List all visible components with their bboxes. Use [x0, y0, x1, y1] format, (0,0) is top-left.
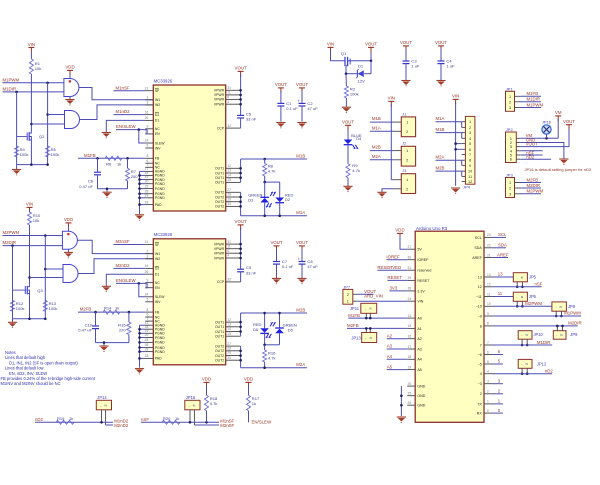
svg-text:JP11: JP11 [350, 306, 360, 311]
svg-text:EN/SLEW: EN/SLEW [116, 124, 136, 129]
svg-text:IOREF: IOREF [417, 258, 429, 262]
svg-text:100k: 100k [16, 306, 26, 311]
svg-text:20: 20 [145, 333, 149, 337]
svg-text:M1DIR: M1DIR [537, 340, 551, 345]
svg-text:VOUT: VOUT [296, 82, 308, 87]
svg-text:24: 24 [145, 293, 149, 297]
svg-text:9: 9 [469, 164, 471, 168]
svg-text:~11: ~11 [476, 295, 482, 299]
svg-text:4: 4 [227, 254, 229, 258]
svg-text:JP16 is default setting jumper: JP16 is default setting jumper for nD2 [525, 167, 592, 172]
svg-text:28: 28 [408, 287, 412, 291]
svg-text:VIN: VIN [28, 42, 35, 47]
svg-text:VIN: VIN [417, 300, 423, 304]
svg-text:IN: IN [104, 404, 107, 407]
svg-text:OUT2: OUT2 [215, 359, 224, 363]
svg-text:Arduino Uno R3: Arduino Uno R3 [416, 226, 448, 231]
svg-text:0.1 uF: 0.1 uF [282, 264, 294, 269]
svg-text:M2B: M2B [372, 145, 381, 150]
svg-text:J2: J2 [402, 142, 406, 146]
svg-text:VOUT: VOUT [235, 66, 247, 71]
svg-text:VPWR: VPWR [214, 103, 225, 107]
svg-text:6: 6 [227, 249, 229, 253]
svg-text:0.47 uF: 0.47 uF [78, 328, 92, 333]
svg-text:2: 2 [469, 126, 471, 130]
svg-text:11: 11 [498, 291, 503, 296]
svg-text:32: 32 [227, 278, 231, 282]
svg-text:PGND: PGND [155, 196, 165, 200]
svg-text:M2nSF: M2nSF [220, 423, 234, 428]
svg-text:IN1: IN1 [155, 252, 160, 256]
svg-text:IN: IN [193, 404, 196, 407]
svg-text:4.7k: 4.7k [268, 169, 277, 174]
svg-text:EN/SLEW: EN/SLEW [252, 420, 272, 425]
svg-text:VPWR: VPWR [214, 242, 225, 246]
svg-text:MC33926: MC33926 [154, 78, 173, 83]
svg-text:VOUT: VOUT [435, 40, 447, 45]
svg-text:0: 0 [487, 409, 489, 413]
svg-text:23: 23 [487, 233, 491, 237]
svg-text:VOUT: VOUT [342, 120, 354, 125]
svg-text:5V: 5V [417, 248, 422, 252]
svg-text:IN: IN [521, 277, 524, 280]
svg-text:A2: A2 [417, 337, 421, 341]
svg-text:SDA: SDA [498, 243, 507, 248]
svg-text:D2: D2 [285, 197, 291, 202]
svg-text:R19: R19 [57, 416, 65, 421]
svg-text:JP9: JP9 [570, 332, 578, 337]
svg-text:VOUT: VOUT [270, 240, 282, 245]
svg-text:R14: R14 [104, 306, 112, 311]
svg-text:A3: A3 [387, 344, 393, 349]
svg-text:A2: A2 [387, 333, 393, 338]
svg-text:D5: D5 [288, 328, 294, 333]
svg-text:29: 29 [227, 351, 231, 355]
svg-text:1: 1 [406, 177, 408, 182]
svg-text:6: 6 [510, 158, 512, 162]
svg-text:Q3: Q3 [37, 288, 43, 293]
svg-text:nD2: nD2 [35, 417, 44, 422]
svg-text:OUT2: OUT2 [215, 195, 224, 199]
svg-text:CCP: CCP [217, 280, 225, 284]
svg-text:A4: A4 [417, 358, 421, 362]
svg-text:26: 26 [145, 116, 149, 120]
svg-text:ARD_VIN: ARD_VIN [364, 294, 383, 299]
svg-text:JP14: JP14 [97, 395, 107, 400]
svg-text:IN2: IN2 [155, 103, 160, 107]
svg-text:SF: SF [155, 243, 159, 247]
svg-text:JP4: JP4 [463, 185, 471, 190]
svg-text:M2PWM: M2PWM [527, 189, 544, 194]
svg-text:M2FB: M2FB [80, 307, 92, 312]
svg-text:15: 15 [227, 178, 231, 182]
svg-text:←: ← [521, 334, 524, 337]
svg-text:OUT1: OUT1 [215, 320, 224, 324]
svg-text:1: 1 [347, 300, 349, 304]
svg-text:11: 11 [227, 91, 231, 95]
svg-text:100k: 100k [20, 152, 30, 157]
svg-text:14: 14 [227, 327, 231, 331]
svg-text:8: 8 [146, 308, 148, 312]
svg-text:4: 4 [487, 370, 489, 374]
svg-text:30: 30 [408, 256, 412, 260]
svg-text:3: 3 [146, 101, 148, 105]
svg-text:reserved: reserved [417, 269, 431, 273]
svg-text:27: 27 [227, 188, 231, 192]
svg-text:14: 14 [227, 173, 231, 177]
svg-text:PAD: PAD [155, 357, 162, 361]
svg-text:7: 7 [469, 153, 471, 157]
svg-text:12: 12 [468, 180, 472, 184]
svg-text:M1PWM: M1PWM [527, 102, 544, 107]
svg-text:VIN: VIN [327, 42, 334, 47]
svg-text:GND: GND [417, 394, 425, 398]
svg-text:JP12: JP12 [537, 362, 547, 367]
svg-text:11: 11 [487, 292, 491, 296]
svg-text:SLEW: SLEW [155, 295, 165, 299]
svg-text:RESERVED: RESERVED [377, 265, 401, 270]
svg-text:200: 200 [131, 174, 139, 179]
svg-text:33 nF: 33 nF [246, 117, 257, 122]
svg-text:10k: 10k [35, 66, 43, 71]
svg-text:27: 27 [227, 342, 231, 346]
svg-text:R6: R6 [106, 162, 112, 167]
svg-text:~9: ~9 [478, 314, 482, 318]
svg-text:25: 25 [408, 392, 412, 396]
svg-text:D2: D2 [155, 113, 159, 117]
svg-text:M2B: M2B [296, 307, 305, 312]
svg-text:22: 22 [487, 244, 491, 248]
svg-text:15: 15 [408, 324, 412, 328]
svg-text:47 uF: 47 uF [307, 264, 318, 269]
svg-text:4: 4 [480, 372, 482, 376]
svg-text:A4: A4 [387, 354, 393, 359]
svg-text:VOUT: VOUT [400, 40, 412, 45]
svg-text:VOUT: VOUT [296, 240, 308, 245]
svg-text:24: 24 [145, 139, 149, 143]
svg-text:IN1: IN1 [155, 98, 160, 102]
svg-text:8: 8 [146, 154, 148, 158]
svg-text:M1A: M1A [296, 210, 305, 215]
svg-text:PGND: PGND [155, 187, 165, 191]
svg-text:4.7k: 4.7k [352, 168, 361, 173]
svg-text:16: 16 [145, 110, 149, 114]
svg-text:3: 3 [509, 192, 511, 196]
svg-text:OUT1: OUT1 [215, 171, 224, 175]
svg-text:13: 13 [227, 323, 231, 327]
svg-text:M2nD2: M2nD2 [116, 263, 131, 268]
svg-text:16: 16 [408, 335, 412, 339]
svg-text:VPWR: VPWR [214, 98, 225, 102]
svg-text:100k: 100k [350, 91, 360, 96]
svg-text:2: 2 [509, 187, 511, 191]
svg-text:~6: ~6 [478, 353, 482, 357]
svg-text:9: 9 [146, 125, 148, 129]
svg-text:OUT2: OUT2 [215, 344, 224, 348]
svg-text:31: 31 [227, 86, 231, 90]
svg-text:2: 2 [347, 293, 349, 297]
svg-text:2: 2 [480, 392, 482, 396]
svg-text:AREF: AREF [497, 252, 509, 257]
svg-text:D3: D3 [248, 197, 254, 202]
svg-text:0.47 uF: 0.47 uF [79, 184, 93, 189]
svg-text:A0: A0 [417, 317, 421, 321]
svg-text:M1FB: M1FB [84, 153, 96, 158]
svg-text:21: 21 [487, 253, 491, 257]
svg-text:PGND: PGND [155, 182, 165, 186]
svg-text:15: 15 [227, 332, 231, 336]
svg-text:M2FB: M2FB [347, 323, 359, 328]
svg-text:M1DIR: M1DIR [3, 87, 17, 92]
svg-text:M2DIR: M2DIR [568, 321, 582, 326]
svg-text:4.7k: 4.7k [210, 401, 219, 406]
svg-text:OUT1: OUT1 [215, 167, 224, 171]
svg-text:1: 1 [509, 181, 511, 185]
svg-text:RESET: RESET [388, 275, 403, 280]
svg-text:D1: D1 [155, 119, 159, 123]
svg-text:2: 2 [487, 390, 489, 394]
svg-text:11: 11 [227, 244, 231, 248]
svg-text:VDD: VDD [64, 217, 73, 222]
svg-text:FB: FB [155, 157, 160, 161]
svg-text:A3: A3 [417, 347, 421, 351]
svg-text:M1DIR: M1DIR [527, 97, 541, 102]
svg-text:24: 24 [408, 297, 412, 301]
svg-text:VOUT: VOUT [235, 219, 247, 224]
svg-text:IN: IN [526, 363, 529, 366]
svg-text:←: ← [516, 296, 519, 299]
svg-text:3: 3 [146, 254, 148, 258]
svg-text:M1PWM: M1PWM [3, 77, 20, 82]
svg-text:VIN: VIN [388, 96, 395, 101]
svg-text:←: ← [555, 334, 558, 337]
svg-text:M2DIR: M2DIR [3, 240, 17, 245]
svg-text:PAD: PAD [155, 203, 162, 207]
svg-text:OUT2: OUT2 [215, 349, 224, 353]
svg-text:M2nSF: M2nSF [116, 239, 130, 244]
svg-text:3: 3 [487, 380, 489, 384]
svg-text:nSF: nSF [141, 417, 149, 422]
svg-text:←: ← [555, 306, 558, 309]
svg-text:12: 12 [478, 285, 482, 289]
svg-text:M1A: M1A [372, 125, 381, 130]
svg-text:VDD: VDD [202, 377, 211, 382]
svg-text:9: 9 [146, 278, 148, 282]
svg-text:J1: J1 [402, 112, 406, 116]
svg-text:30: 30 [227, 356, 231, 360]
svg-text:33: 33 [145, 200, 149, 204]
svg-text:PGND: PGND [155, 350, 165, 354]
svg-text:JP1: JP1 [506, 86, 514, 91]
svg-text:3.3V: 3.3V [417, 289, 425, 293]
svg-text:M2FB: M2FB [527, 177, 539, 182]
svg-text:~3: ~3 [478, 382, 482, 386]
svg-text:5: 5 [146, 298, 148, 302]
svg-text:D2: D2 [155, 267, 159, 271]
svg-text:M1A: M1A [436, 116, 445, 121]
svg-text:SCL: SCL [475, 236, 482, 240]
svg-text:32: 32 [227, 124, 231, 128]
svg-text:1: 1 [509, 95, 511, 99]
svg-text:PGND: PGND [155, 341, 165, 345]
svg-text:JP6: JP6 [529, 294, 537, 299]
svg-text:9: 9 [487, 312, 489, 316]
svg-text:INV: INV [155, 146, 161, 150]
svg-text:IN: IN [560, 306, 563, 309]
svg-text:JP10: JP10 [534, 332, 544, 337]
svg-text:8: 8 [480, 324, 482, 328]
svg-text:←: ← [100, 404, 103, 407]
svg-text:VPWR: VPWR [214, 93, 225, 97]
svg-text:7: 7 [480, 343, 482, 347]
svg-text:21: 21 [145, 240, 149, 244]
svg-text:25: 25 [145, 338, 149, 342]
svg-text:JP2: JP2 [506, 127, 514, 132]
svg-text:M1B: M1B [296, 153, 305, 158]
svg-text:M2nD2: M2nD2 [114, 423, 129, 428]
svg-text:19: 19 [408, 365, 412, 369]
svg-text:A1: A1 [417, 327, 421, 331]
svg-text:31: 31 [408, 266, 412, 270]
svg-text:IN: IN [369, 308, 372, 311]
svg-text:3V3: 3V3 [390, 286, 398, 291]
svg-text:13: 13 [487, 273, 491, 277]
svg-text:28: 28 [227, 193, 231, 197]
svg-text:M2A: M2A [296, 362, 305, 367]
svg-text:VPWR: VPWR [214, 89, 225, 93]
svg-text:VM: VM [555, 110, 562, 115]
svg-text:←: ← [364, 308, 367, 311]
svg-text:4: 4 [227, 100, 229, 104]
svg-text:11: 11 [468, 175, 472, 179]
svg-text:1: 1 [469, 120, 471, 124]
svg-text:M1FB: M1FB [527, 91, 539, 96]
svg-text:JP7: JP7 [343, 284, 351, 289]
svg-text:6: 6 [469, 148, 471, 152]
svg-text:2: 2 [406, 186, 408, 191]
svg-text:←: ← [521, 363, 524, 366]
svg-text:SCL: SCL [498, 232, 507, 237]
svg-text:47 uF: 47 uF [307, 106, 318, 111]
svg-text:VOUT: VOUT [563, 119, 575, 124]
svg-text:VDD: VDD [395, 228, 404, 233]
svg-text:8: 8 [469, 159, 471, 163]
svg-text:nSF: nSF [535, 282, 543, 287]
svg-text:8: 8 [487, 322, 489, 326]
svg-text:INV: INV [155, 300, 161, 304]
svg-text:OUT2: OUT2 [215, 354, 224, 358]
svg-text:VPWR: VPWR [214, 256, 225, 260]
svg-text:25: 25 [145, 184, 149, 188]
svg-text:M2PWM: M2PWM [525, 301, 542, 306]
svg-text:2: 2 [509, 100, 511, 104]
svg-text:R20: R20 [163, 416, 171, 421]
svg-text:VOUT: VOUT [275, 82, 287, 87]
svg-text:5: 5 [487, 360, 489, 364]
svg-text:CCP: CCP [217, 126, 225, 130]
svg-text:5: 5 [469, 142, 471, 146]
svg-text:100k: 100k [49, 306, 59, 311]
svg-text:D6: D6 [253, 327, 259, 332]
svg-text:2: 2 [146, 96, 148, 100]
svg-text:29: 29 [227, 197, 231, 201]
svg-text:100k: 100k [51, 152, 61, 157]
svg-text:OUT1: OUT1 [215, 330, 224, 334]
svg-text:12: 12 [227, 318, 231, 322]
svg-text:29: 29 [408, 276, 412, 280]
svg-text:IN2: IN2 [155, 257, 160, 261]
svg-text:←: ← [365, 337, 368, 340]
svg-text:1 uF: 1 uF [446, 63, 455, 68]
svg-text:13: 13 [478, 275, 482, 279]
svg-text:VPWR: VPWR [214, 247, 225, 251]
svg-text:JP15: JP15 [186, 395, 196, 400]
svg-text:IN: IN [526, 334, 529, 337]
svg-text:13: 13 [227, 169, 231, 173]
svg-text:FB: FB [155, 310, 160, 314]
svg-text:JP5: JP5 [529, 275, 537, 280]
svg-text:26: 26 [408, 401, 412, 405]
svg-text:MC33926: MC33926 [154, 232, 173, 237]
svg-text:OUT1: OUT1 [215, 335, 224, 339]
svg-text:JP16: JP16 [542, 120, 552, 125]
svg-text:EN: EN [155, 132, 160, 136]
svg-text:M1FB: M1FB [348, 313, 360, 318]
svg-text:3: 3 [469, 131, 471, 135]
svg-text:PGND: PGND [155, 336, 165, 340]
svg-text:28: 28 [227, 347, 231, 351]
svg-text:M1B: M1B [372, 116, 381, 121]
svg-text:33: 33 [145, 354, 149, 358]
svg-text:GND: GND [417, 404, 425, 408]
svg-text:M1B: M1B [436, 127, 445, 132]
svg-text:21: 21 [145, 86, 149, 90]
svg-text:M2A: M2A [372, 154, 381, 159]
svg-text:JP13: JP13 [351, 336, 361, 341]
svg-text:13: 13 [498, 272, 503, 277]
svg-text:A5: A5 [417, 368, 421, 372]
svg-text:14: 14 [408, 314, 412, 318]
svg-text:Q1: Q1 [341, 51, 347, 56]
svg-text:1: 1 [487, 400, 489, 404]
svg-text:VPWR: VPWR [214, 252, 225, 256]
svg-text:D4: D4 [356, 136, 362, 141]
svg-text:6: 6 [487, 350, 489, 354]
svg-text:16: 16 [145, 264, 149, 268]
svg-text:M1nD2: M1nD2 [116, 109, 131, 114]
svg-text:~10: ~10 [476, 305, 482, 309]
svg-text:IN: IN [521, 296, 524, 299]
svg-text:VDD: VDD [65, 65, 74, 70]
svg-text:EN/SLEW: EN/SLEW [116, 278, 136, 283]
svg-text:OUT2: OUT2 [215, 205, 224, 209]
svg-text:~5: ~5 [478, 362, 482, 366]
svg-text:26: 26 [145, 270, 149, 274]
svg-text:M2A: M2A [436, 155, 445, 160]
svg-text:1: 1 [406, 148, 408, 153]
svg-text:33 nF: 33 nF [246, 270, 257, 275]
svg-text:NC: NC [155, 127, 160, 131]
svg-text:RX: RX [477, 412, 483, 416]
svg-text:OUT1: OUT1 [215, 325, 224, 329]
svg-text:M1PWM: M1PWM [564, 311, 581, 316]
svg-text:18: 18 [408, 355, 412, 359]
svg-text:OUT1: OUT1 [215, 181, 224, 185]
svg-text:IN: IN [560, 334, 563, 337]
svg-text:OUT2: OUT2 [215, 200, 224, 204]
svg-text:M2B: M2B [436, 166, 445, 171]
svg-text:M2PWM: M2PWM [3, 230, 20, 235]
